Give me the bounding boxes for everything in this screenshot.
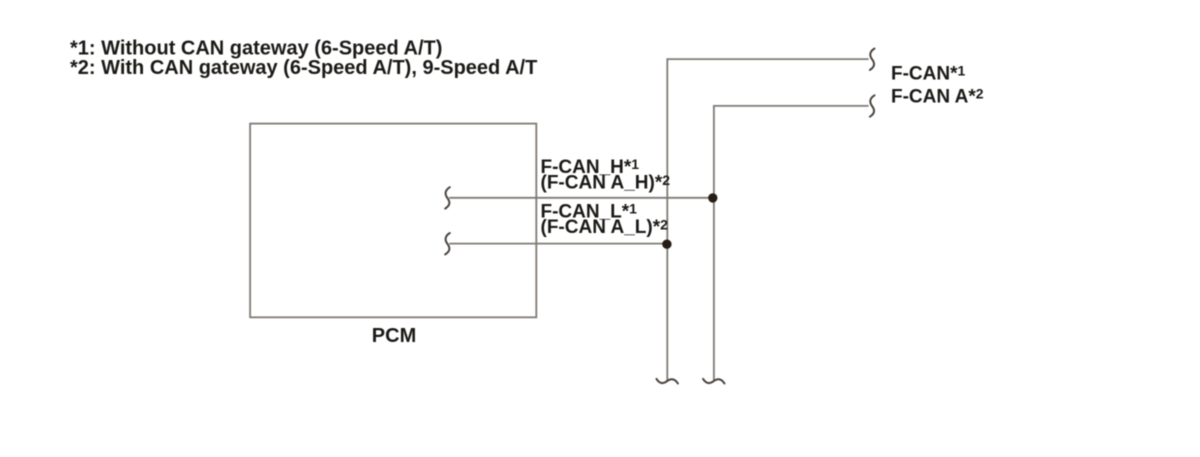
svg-text:F-CAN*1: F-CAN*1 [891, 63, 966, 85]
svg-text:(F-CAN A_H)*2: (F-CAN A_H)*2 [541, 172, 671, 194]
svg-text:*2: With CAN gateway (6-Speed: *2: With CAN gateway (6-Speed A/T), 9-Sp… [70, 57, 537, 79]
svg-text:(F-CAN A_L)*2: (F-CAN A_L)*2 [541, 216, 669, 238]
svg-text:PCM: PCM [372, 325, 416, 347]
svg-text:F-CAN A*2: F-CAN A*2 [891, 86, 984, 108]
